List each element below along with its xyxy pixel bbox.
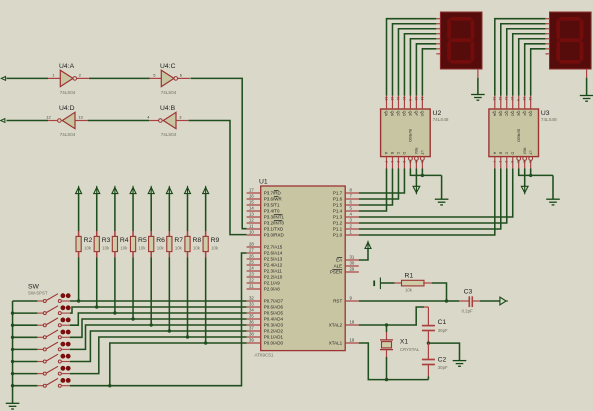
- svg-text:R9: R9: [211, 237, 220, 244]
- svg-text:32: 32: [249, 296, 254, 301]
- svg-text:P0.0/AD0: P0.0/AD0: [264, 341, 284, 346]
- svg-text:2: 2: [396, 161, 400, 163]
- svg-text:P2.2/A10: P2.2/A10: [264, 275, 283, 280]
- svg-text:P1.0: P1.0: [333, 233, 343, 238]
- svg-text:P3.4/T0: P3.4/T0: [264, 209, 280, 214]
- svg-text:P0.1/AD1: P0.1/AD1: [264, 335, 284, 340]
- svg-text:3: 3: [528, 161, 532, 163]
- svg-text:10k: 10k: [120, 246, 128, 251]
- svg-text:10k: 10k: [102, 246, 110, 251]
- svg-text:19: 19: [350, 338, 355, 343]
- svg-text:C2: C2: [438, 357, 447, 364]
- svg-text:4: 4: [408, 161, 412, 163]
- svg-text:RBI: RBI: [414, 148, 418, 154]
- svg-text:P1.5: P1.5: [333, 203, 343, 208]
- svg-text:7: 7: [384, 161, 388, 163]
- svg-text:QE: QE: [408, 111, 412, 117]
- svg-text:15: 15: [522, 97, 526, 101]
- svg-text:U4:D: U4:D: [59, 105, 75, 112]
- svg-text:P0.5/AD5: P0.5/AD5: [264, 311, 284, 316]
- svg-text:R6: R6: [156, 237, 165, 244]
- svg-text:3: 3: [420, 161, 424, 163]
- svg-text:P2.4/A12: P2.4/A12: [264, 263, 283, 268]
- svg-text:21: 21: [249, 284, 254, 289]
- svg-text:R7: R7: [174, 237, 183, 244]
- svg-text:0.2pF: 0.2pF: [462, 309, 473, 314]
- svg-text:34: 34: [249, 308, 254, 313]
- svg-text:P2.6/A14: P2.6/A14: [264, 251, 283, 256]
- svg-text:R8: R8: [193, 237, 202, 244]
- svg-text:9: 9: [408, 99, 412, 101]
- svg-text:10k: 10k: [405, 288, 413, 293]
- svg-text:XTAL2: XTAL2: [329, 323, 343, 328]
- svg-text:P1.2: P1.2: [333, 221, 343, 226]
- svg-text:QG: QG: [528, 111, 532, 117]
- svg-text:P1.3: P1.3: [333, 215, 343, 220]
- svg-text:38: 38: [249, 332, 254, 337]
- svg-text:74LS04: 74LS04: [60, 90, 76, 95]
- svg-text:14: 14: [249, 206, 254, 211]
- svg-text:10k: 10k: [84, 246, 92, 251]
- svg-text:BI/RBO: BI/RBO: [408, 129, 412, 142]
- svg-text:6: 6: [402, 161, 406, 163]
- svg-text:LT: LT: [528, 151, 532, 156]
- svg-text:SW: SW: [28, 284, 40, 291]
- svg-text:12: 12: [46, 115, 51, 120]
- svg-text:6: 6: [510, 161, 514, 163]
- svg-text:R1: R1: [405, 273, 414, 280]
- svg-text:2: 2: [504, 161, 508, 163]
- svg-text:QC: QC: [504, 111, 508, 117]
- svg-text:30pF: 30pF: [438, 365, 448, 370]
- svg-text:74LS48: 74LS48: [433, 117, 449, 122]
- svg-text:74LS04: 74LS04: [161, 132, 177, 137]
- svg-text:P1.6: P1.6: [333, 197, 343, 202]
- svg-text:11: 11: [504, 97, 508, 101]
- svg-text:QA: QA: [492, 111, 496, 117]
- svg-text:31: 31: [350, 255, 355, 260]
- svg-text:C3: C3: [464, 289, 473, 296]
- svg-text:QF: QF: [414, 111, 418, 117]
- svg-text:P3.2/INT0: P3.2/INT0: [264, 221, 285, 226]
- svg-text:P3.7/RD: P3.7/RD: [264, 191, 282, 196]
- svg-text:U3: U3: [541, 110, 550, 117]
- svg-text:P1.7: P1.7: [333, 191, 343, 196]
- svg-text:74LS04: 74LS04: [161, 90, 177, 95]
- svg-text:SW-SPST: SW-SPST: [28, 291, 48, 296]
- svg-text:P2.0/A8: P2.0/A8: [264, 287, 281, 292]
- svg-text:QE: QE: [516, 111, 520, 117]
- svg-text:26: 26: [249, 254, 254, 259]
- svg-text:10k: 10k: [157, 246, 165, 251]
- svg-text:P0.4/AD4: P0.4/AD4: [264, 317, 284, 322]
- svg-text:24: 24: [249, 266, 254, 271]
- svg-text:P2.3/A11: P2.3/A11: [264, 269, 283, 274]
- svg-text:27: 27: [249, 248, 254, 253]
- svg-text:12: 12: [249, 218, 254, 223]
- svg-text:U4:C: U4:C: [160, 63, 176, 70]
- svg-text:10k: 10k: [211, 246, 219, 251]
- svg-text:18: 18: [350, 320, 355, 325]
- svg-text:QD: QD: [510, 111, 514, 117]
- svg-text:30: 30: [350, 261, 355, 266]
- svg-text:22: 22: [249, 278, 254, 283]
- svg-text:P3.0/RXD: P3.0/RXD: [264, 233, 285, 238]
- svg-text:13: 13: [492, 97, 496, 101]
- svg-text:P1.1: P1.1: [333, 227, 343, 232]
- svg-text:37: 37: [249, 326, 254, 331]
- svg-text:P0.2/AD2: P0.2/AD2: [264, 329, 284, 334]
- svg-text:12: 12: [498, 97, 502, 101]
- svg-text:C: C: [504, 152, 508, 155]
- svg-text:16: 16: [249, 194, 254, 199]
- svg-text:QD: QD: [402, 111, 406, 117]
- svg-text:5: 5: [414, 161, 418, 163]
- svg-text:17: 17: [249, 188, 254, 193]
- svg-text:X1: X1: [400, 339, 409, 346]
- svg-text:74LS48: 74LS48: [541, 117, 557, 122]
- svg-text:U1: U1: [259, 179, 268, 186]
- svg-text:P3.6/WR: P3.6/WR: [264, 197, 283, 202]
- svg-text:P3.3/INT1: P3.3/INT1: [264, 215, 285, 220]
- svg-text:C1: C1: [438, 319, 447, 326]
- svg-text:14: 14: [528, 97, 532, 101]
- svg-text:1: 1: [390, 161, 394, 163]
- svg-text:5: 5: [522, 161, 526, 163]
- svg-text:P0.7/AD7: P0.7/AD7: [264, 299, 284, 304]
- svg-text:D: D: [402, 152, 406, 155]
- svg-text:7: 7: [492, 161, 496, 163]
- svg-text:36: 36: [249, 320, 254, 325]
- svg-text:14: 14: [420, 97, 424, 101]
- svg-text:QB: QB: [390, 111, 394, 117]
- svg-text:13: 13: [249, 212, 254, 217]
- svg-text:1: 1: [498, 161, 502, 163]
- svg-text:33: 33: [249, 302, 254, 307]
- svg-text:29: 29: [350, 267, 355, 272]
- svg-text:QA: QA: [384, 111, 388, 117]
- svg-text:C: C: [396, 152, 400, 155]
- svg-text:ALE: ALE: [334, 264, 343, 269]
- svg-text:P3.1/TXD: P3.1/TXD: [264, 227, 284, 232]
- svg-text:A: A: [384, 152, 388, 155]
- svg-text:74LS04: 74LS04: [60, 132, 76, 137]
- svg-text:P0.3/AD3: P0.3/AD3: [264, 323, 284, 328]
- svg-text:U4:A: U4:A: [59, 63, 75, 70]
- svg-text:BI/RBO: BI/RBO: [516, 129, 520, 142]
- svg-text:U4:B: U4:B: [160, 105, 176, 112]
- svg-text:P2.7/A15: P2.7/A15: [264, 245, 283, 250]
- svg-text:R2: R2: [84, 237, 93, 244]
- svg-text:EA: EA: [336, 258, 342, 263]
- svg-text:LT: LT: [420, 151, 424, 156]
- svg-text:XTAL1: XTAL1: [329, 341, 343, 346]
- svg-text:12: 12: [390, 97, 394, 101]
- svg-text:15: 15: [414, 97, 418, 101]
- svg-text:PSEN: PSEN: [330, 270, 342, 275]
- svg-text:R3: R3: [102, 237, 111, 244]
- svg-text:R4: R4: [120, 237, 129, 244]
- svg-text:QB: QB: [498, 111, 502, 117]
- svg-text:B: B: [498, 152, 502, 155]
- svg-text:13: 13: [384, 97, 388, 101]
- svg-text:13: 13: [78, 115, 83, 120]
- svg-text:P2.1/A9: P2.1/A9: [264, 281, 281, 286]
- svg-text:R5: R5: [138, 237, 147, 244]
- svg-text:QC: QC: [396, 111, 400, 117]
- svg-text:CRYSTAL: CRYSTAL: [400, 347, 420, 352]
- svg-text:15: 15: [249, 200, 254, 205]
- svg-text:RST: RST: [333, 299, 342, 304]
- svg-text:P1.4: P1.4: [333, 209, 343, 214]
- svg-text:10k: 10k: [193, 246, 201, 251]
- svg-text:11: 11: [249, 224, 254, 229]
- svg-text:39: 39: [249, 338, 254, 343]
- svg-text:23: 23: [249, 272, 254, 277]
- svg-text:P2.5/A13: P2.5/A13: [264, 257, 283, 262]
- svg-text:11: 11: [396, 97, 400, 101]
- svg-text:QF: QF: [522, 111, 526, 117]
- svg-text:A: A: [492, 152, 496, 155]
- svg-text:10: 10: [510, 97, 514, 101]
- svg-text:10: 10: [402, 97, 406, 101]
- svg-text:P0.6/AD6: P0.6/AD6: [264, 305, 284, 310]
- svg-text:35: 35: [249, 314, 254, 319]
- svg-text:B: B: [390, 152, 394, 155]
- svg-text:AT89C51: AT89C51: [254, 353, 274, 358]
- svg-text:25: 25: [249, 260, 254, 265]
- svg-text:4: 4: [516, 161, 520, 163]
- svg-text:9: 9: [516, 99, 520, 101]
- svg-text:30pF: 30pF: [438, 328, 448, 333]
- svg-text:10k: 10k: [175, 246, 183, 251]
- svg-text:QG: QG: [420, 111, 424, 117]
- svg-text:U2: U2: [433, 110, 442, 117]
- svg-text:10: 10: [249, 230, 254, 235]
- svg-text:10k: 10k: [139, 246, 147, 251]
- svg-text:28: 28: [249, 242, 254, 247]
- svg-text:D: D: [510, 152, 514, 155]
- svg-text:P3.5/T1: P3.5/T1: [264, 203, 280, 208]
- svg-text:RBI: RBI: [522, 148, 526, 154]
